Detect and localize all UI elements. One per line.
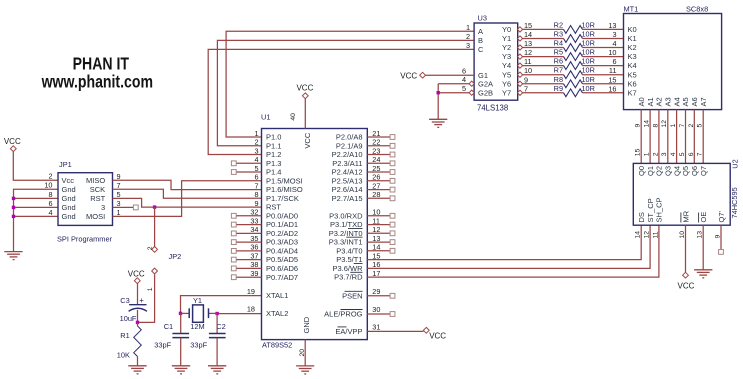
svg-text:9: 9: [254, 199, 258, 208]
svg-text:Q6: Q6: [690, 166, 699, 176]
svg-text:A4: A4: [672, 97, 681, 106]
resistor R9: [564, 89, 583, 97]
svg-text:P2.2/A10: P2.2/A10: [332, 150, 363, 159]
svg-text:P2.0/A8: P2.0/A8: [336, 133, 363, 142]
svg-text:Y3: Y3: [502, 52, 511, 61]
svg-text:P3.1/TXD: P3.1/TXD: [330, 220, 363, 229]
svg-text:2: 2: [652, 152, 659, 156]
svg-text:PSEN: PSEN: [342, 291, 362, 300]
svg-text:16: 16: [608, 84, 616, 93]
connector JP1: [58, 173, 113, 226]
svg-text:3: 3: [466, 41, 470, 50]
svg-text:4: 4: [462, 75, 466, 84]
svg-text:U3: U3: [478, 14, 487, 23]
svg-text:P0.7/AD7: P0.7/AD7: [266, 273, 298, 282]
ground (C2): [208, 365, 226, 367]
wire P1.2 to U3 C: [208, 49, 474, 154]
junction dot reset node: [136, 321, 139, 324]
power VCC (EA): [423, 327, 429, 333]
svg-text:P0.0/AD0: P0.0/AD0: [266, 211, 298, 220]
svg-text:www.phanit.com: www.phanit.com: [41, 73, 153, 92]
svg-text:DS: DS: [637, 212, 646, 222]
resistor R7: [564, 71, 583, 79]
svg-text:11: 11: [609, 66, 617, 75]
svg-text:K3: K3: [628, 52, 637, 61]
wire MT1 A3 to U2 Q3: [667, 110, 669, 164]
svg-text:Y1: Y1: [193, 296, 202, 305]
svg-text:P1.7/SCK: P1.7/SCK: [266, 194, 299, 203]
svg-text:10R: 10R: [582, 84, 595, 93]
wire R3 to MT1 K1: [583, 38, 624, 40]
wire MISO JP1-U1: [113, 180, 262, 189]
svg-text:Gnd: Gnd: [62, 185, 76, 194]
svg-text:A1: A1: [646, 97, 655, 106]
svg-text:Q0: Q0: [637, 166, 646, 176]
connector JP2 pin1: [152, 268, 158, 274]
wire R8 to MT1 K6: [583, 83, 624, 85]
junction dot G2B: [437, 91, 440, 94]
svg-text:VCC: VCC: [128, 269, 145, 278]
svg-text:C1: C1: [164, 322, 173, 331]
svg-text:2: 2: [466, 32, 470, 41]
svg-text:10: 10: [44, 181, 52, 190]
U1 AT89S52 box: [262, 129, 368, 340]
unconnected U2 Q7': [719, 250, 724, 255]
svg-text:P0.6/AD6: P0.6/AD6: [266, 264, 298, 273]
wire R4 to MT1 K2: [583, 47, 624, 49]
svg-text:SPI Programmer: SPI Programmer: [57, 235, 113, 244]
svg-text:P0.3/AD3: P0.3/AD3: [266, 238, 298, 247]
svg-text:10K: 10K: [117, 350, 130, 359]
svg-text:P3.5/T1: P3.5/T1: [336, 255, 362, 264]
resistor R4: [564, 44, 583, 52]
svg-text:C3: C3: [120, 296, 129, 305]
svg-text:7: 7: [254, 181, 258, 190]
svg-text:G2B: G2B: [478, 88, 493, 97]
svg-text:4: 4: [48, 208, 52, 217]
svg-text:15: 15: [524, 21, 532, 30]
svg-text:R3: R3: [554, 30, 563, 39]
wire R6 to MT1 K4: [583, 65, 624, 67]
svg-text:P3.3/INT1: P3.3/INT1: [329, 238, 363, 247]
svg-text:2: 2: [147, 246, 154, 250]
svg-text:74LS138: 74LS138: [477, 103, 508, 112]
wire R5 to MT1 K3: [583, 56, 624, 58]
svg-text:P3.7/RD: P3.7/RD: [334, 273, 363, 282]
svg-text:3: 3: [254, 146, 258, 155]
svg-text:P0.2/AD2: P0.2/AD2: [266, 229, 298, 238]
resistor R6: [564, 62, 583, 70]
wire Y5 to R7: [523, 74, 564, 76]
wire MT1 A1 to U2 Q1: [649, 110, 651, 164]
svg-text:33pF: 33pF: [154, 340, 171, 349]
svg-text:1: 1: [644, 152, 651, 156]
svg-text:Q7: Q7: [699, 166, 708, 176]
wire P3.5 to U2 DS: [367, 225, 641, 259]
junction dot crystal right: [215, 312, 218, 315]
svg-text:10R: 10R: [582, 20, 595, 29]
svg-text:U1: U1: [261, 112, 270, 121]
wire R7 to MT1 K5: [583, 74, 624, 76]
wire Y3 to R5: [523, 56, 564, 58]
svg-text:Y7: Y7: [502, 88, 511, 97]
resistor R5: [564, 53, 583, 61]
wire P1.1 to U3 B: [217, 40, 474, 145]
wire G2B: [438, 92, 469, 94]
svg-text:3: 3: [661, 152, 668, 156]
svg-text:VCC: VCC: [4, 137, 21, 146]
ground (U1 pin 20): [304, 340, 306, 366]
svg-text:XTAL1: XTAL1: [266, 291, 288, 300]
wire Y1 to R3: [523, 38, 564, 40]
wire Y2 to R4: [523, 47, 564, 49]
svg-text:P3.6/WR: P3.6/WR: [332, 264, 363, 273]
svg-text:R8: R8: [554, 75, 563, 84]
svg-text:19: 19: [247, 287, 255, 296]
svg-text:6: 6: [48, 199, 52, 208]
svg-text:VCC: VCC: [678, 281, 695, 290]
svg-text:7: 7: [524, 84, 528, 93]
svg-text:10: 10: [524, 66, 532, 75]
svg-text:A0: A0: [637, 97, 646, 106]
svg-text:K5: K5: [628, 70, 637, 79]
svg-text:Q5: Q5: [681, 166, 690, 176]
wire Y4 to R6: [523, 65, 564, 67]
svg-text:10R: 10R: [582, 30, 595, 39]
svg-text:5: 5: [697, 124, 704, 128]
svg-text:7: 7: [679, 124, 686, 128]
svg-text:P1.6/MISO: P1.6/MISO: [266, 185, 303, 194]
wire Y6 to R8: [523, 83, 564, 85]
wire crystal left: [181, 312, 190, 314]
wire MT1 A4 to U2 Q4: [676, 110, 678, 164]
svg-text:1: 1: [670, 124, 677, 128]
svg-text:P1.3: P1.3: [266, 159, 281, 168]
svg-text:3: 3: [612, 30, 616, 39]
svg-text:10R: 10R: [582, 66, 595, 75]
svg-text:P3.4/T0: P3.4/T0: [336, 246, 362, 255]
svg-text:K7: K7: [628, 88, 637, 97]
svg-text:P3.2/INT0: P3.2/INT0: [329, 229, 363, 238]
wire JP2 pin1 to reset node: [138, 274, 155, 322]
svg-text:15: 15: [608, 75, 616, 84]
svg-text:1: 1: [147, 287, 154, 291]
wire JP1 pin3 stub: [113, 206, 139, 208]
svg-text:A6: A6: [690, 97, 699, 106]
svg-text:P2.6/A14: P2.6/A14: [332, 185, 363, 194]
wire R2 to MT1 K0: [583, 28, 624, 30]
MT1 SC8x8 box: [624, 14, 722, 110]
svg-text:ALE/PROG: ALE/PROG: [324, 310, 363, 319]
wire crystal right: [209, 312, 218, 314]
svg-text:30: 30: [372, 305, 380, 314]
wire SCK JP1-U1: [113, 189, 262, 198]
wire VCC to G1: [426, 74, 475, 76]
unconnected JP1 pin3: [133, 205, 138, 210]
wire JP1 pin8: [14, 197, 59, 199]
wire RST to JP2: [154, 207, 156, 247]
svg-text:U2: U2: [730, 159, 739, 168]
wire P3.7 to U2 SH_CP: [367, 225, 659, 277]
wire C3 to node: [137, 310, 139, 323]
svg-text:P1.4: P1.4: [266, 168, 281, 177]
svg-text:SCK: SCK: [90, 185, 105, 194]
wire MT1 A2 to U2 Q2: [658, 110, 660, 164]
svg-text:A7: A7: [699, 97, 708, 106]
wire JP1 pin6: [14, 206, 59, 208]
junction dot RST: [153, 205, 156, 208]
svg-text:14: 14: [524, 30, 532, 39]
svg-text:B: B: [478, 36, 483, 45]
svg-text:P0.5/AD5: P0.5/AD5: [266, 255, 298, 264]
svg-text:9: 9: [635, 124, 642, 128]
svg-text:1: 1: [254, 129, 258, 138]
svg-text:C: C: [478, 45, 484, 54]
wire R1 to ground: [137, 357, 139, 366]
svg-text:P3.0/RXD: P3.0/RXD: [329, 211, 363, 220]
svg-text:2: 2: [48, 172, 52, 181]
svg-text:Gnd: Gnd: [62, 212, 76, 221]
svg-text:Y0: Y0: [502, 25, 511, 34]
svg-text:7: 7: [697, 152, 704, 156]
svg-text:A: A: [478, 27, 483, 36]
svg-text:K1: K1: [628, 34, 637, 43]
svg-text:K4: K4: [628, 61, 637, 70]
wire G2A: [438, 83, 469, 85]
wire EA to VCC: [367, 330, 423, 332]
svg-text:PHAN IT: PHAN IT: [73, 55, 130, 74]
svg-text:GND: GND: [302, 316, 311, 333]
wire VCC to JP1 pin2: [13, 152, 58, 181]
svg-text:Y2: Y2: [502, 43, 511, 52]
svg-text:Gnd: Gnd: [62, 194, 76, 203]
wire Y7 to R9: [523, 92, 564, 94]
svg-text:P2.7/A15: P2.7/A15: [332, 194, 363, 203]
wire MT1 A5 to U2 Q5: [685, 110, 687, 164]
svg-text:G2A: G2A: [478, 79, 493, 88]
svg-text:Q1: Q1: [646, 166, 655, 176]
svg-text:31: 31: [372, 322, 380, 331]
svg-text:P2.3/A11: P2.3/A11: [332, 159, 362, 168]
svg-text:P2.5/A13: P2.5/A13: [332, 176, 363, 185]
svg-text:OE: OE: [699, 212, 708, 223]
ground (R1): [128, 365, 146, 367]
svg-text:14: 14: [644, 120, 651, 128]
wire U2 MR to VCC: [685, 225, 687, 272]
svg-text:6: 6: [688, 152, 695, 156]
svg-text:74HC595: 74HC595: [730, 187, 739, 218]
svg-text:20: 20: [299, 349, 306, 357]
svg-text:EA/VPP: EA/VPP: [335, 327, 362, 336]
resistor R8: [564, 80, 583, 88]
svg-text:R4: R4: [554, 39, 563, 48]
svg-text:A2: A2: [655, 97, 664, 106]
svg-text:10: 10: [608, 48, 616, 57]
svg-text:MOSI: MOSI: [86, 212, 105, 221]
svg-text:R5: R5: [554, 48, 563, 57]
svg-text:R7: R7: [554, 66, 563, 75]
svg-text:RST: RST: [266, 203, 281, 212]
svg-text:XTAL2: XTAL2: [266, 309, 288, 318]
junction dot crystal left: [179, 312, 182, 315]
svg-text:10uF: 10uF: [120, 314, 137, 323]
svg-text:4: 4: [612, 39, 616, 48]
svg-text:12: 12: [661, 120, 668, 128]
svg-text:11: 11: [652, 231, 659, 238]
svg-text:Y4: Y4: [502, 61, 511, 70]
svg-text:VCC: VCC: [296, 84, 313, 93]
resistor R3: [564, 35, 583, 43]
svg-text:10R: 10R: [582, 57, 595, 66]
wire JP1 pin4: [14, 215, 59, 217]
wire XTAL2: [217, 313, 261, 315]
svg-text:13: 13: [524, 39, 532, 48]
svg-text:Y1: Y1: [502, 34, 511, 43]
wire JP1 gnd bus: [14, 189, 59, 251]
wire MOSI JP1-U1: [113, 181, 262, 217]
svg-text:9: 9: [524, 75, 528, 84]
svg-text:P1.1: P1.1: [266, 141, 281, 150]
svg-text:K6: K6: [628, 79, 637, 88]
svg-text:12M: 12M: [190, 322, 204, 331]
svg-text:5: 5: [462, 84, 466, 93]
svg-text:8: 8: [254, 190, 258, 199]
svg-text:8: 8: [48, 190, 52, 199]
svg-text:ST_CP: ST_CP: [646, 198, 655, 222]
svg-text:40: 40: [290, 113, 297, 121]
svg-text:SC8x8: SC8x8: [686, 4, 708, 13]
svg-text:2: 2: [688, 124, 695, 128]
svg-text:12: 12: [644, 231, 651, 239]
svg-text:VCC: VCC: [400, 71, 417, 80]
svg-text:P0.4/AD4: P0.4/AD4: [266, 247, 298, 256]
ground (C1): [172, 365, 190, 367]
svg-text:P1.5/MOSI: P1.5/MOSI: [266, 176, 303, 185]
svg-text:6: 6: [612, 57, 616, 66]
svg-text:Q3: Q3: [664, 166, 673, 176]
svg-text:10R: 10R: [582, 48, 595, 57]
wire Y0 to R2: [523, 28, 564, 30]
svg-text:P2.4/A12: P2.4/A12: [332, 168, 363, 177]
svg-text:K2: K2: [628, 43, 637, 52]
wire U2 OE to ground: [702, 225, 704, 270]
svg-text:R1: R1: [120, 331, 129, 340]
svg-text:Y5: Y5: [502, 70, 511, 79]
svg-text:+: +: [139, 296, 144, 305]
svg-text:8: 8: [652, 124, 659, 128]
wire R9 to MT1 K7: [583, 92, 624, 94]
svg-text:3: 3: [101, 203, 105, 212]
svg-text:33pF: 33pF: [190, 340, 207, 349]
svg-text:R6: R6: [554, 57, 563, 66]
svg-text:4: 4: [670, 152, 677, 156]
svg-text:15: 15: [635, 148, 642, 156]
junction dots gnd bus: [12, 197, 15, 200]
connector JP2 pin2: [152, 247, 158, 253]
wire MT1 A6 to U2 Q6: [693, 110, 695, 164]
ground (U3 G2): [429, 118, 447, 120]
svg-text:MT1: MT1: [624, 4, 639, 13]
svg-text:Q4: Q4: [672, 166, 681, 176]
svg-text:R2: R2: [554, 20, 563, 29]
svg-text:AT89S52: AT89S52: [262, 341, 292, 350]
wire MT1 A7 to U2 Q7: [702, 110, 704, 164]
resistor R2: [564, 26, 583, 34]
svg-text:10R: 10R: [582, 39, 595, 48]
wire U2 Q7' stub: [720, 225, 722, 249]
svg-text:Y6: Y6: [502, 79, 511, 88]
wire MT1 A0 to U2 Q0: [640, 110, 642, 164]
svg-text:SH_CP: SH_CP: [655, 197, 664, 222]
wire G2 bus to ground: [437, 84, 439, 120]
svg-text:10R: 10R: [582, 75, 595, 84]
svg-text:JP1: JP1: [59, 160, 72, 169]
svg-text:6: 6: [254, 173, 258, 182]
svg-text:29: 29: [372, 287, 380, 296]
svg-text:P1.0: P1.0: [266, 133, 281, 142]
wire P3.6 to U2 ST_CP: [367, 225, 650, 268]
svg-text:A5: A5: [681, 97, 690, 106]
svg-text:P0.1/AD1: P0.1/AD1: [266, 220, 298, 229]
svg-text:14: 14: [635, 231, 642, 239]
svg-text:11: 11: [524, 57, 532, 66]
svg-text:JP2: JP2: [169, 252, 182, 261]
svg-text:P1.2: P1.2: [266, 150, 281, 159]
svg-text:A3: A3: [664, 97, 673, 106]
U2 74HC595 box: [633, 163, 730, 225]
svg-text:RST: RST: [90, 194, 105, 203]
U3 74LS138 box: [474, 23, 518, 100]
svg-text:VCC: VCC: [429, 331, 446, 340]
svg-text:P2.1/A9: P2.1/A9: [336, 141, 363, 150]
svg-text:Gnd: Gnd: [62, 203, 76, 212]
ground (U2 OE): [694, 269, 712, 271]
svg-text:13: 13: [608, 21, 616, 30]
svg-text:18: 18: [247, 305, 255, 314]
svg-text:K0: K0: [628, 25, 637, 34]
ground (JP1): [4, 251, 22, 253]
svg-text:R9: R9: [554, 84, 563, 93]
wire XTAL1: [181, 296, 262, 314]
svg-text:Vcc: Vcc: [62, 176, 75, 185]
svg-text:5: 5: [679, 152, 686, 156]
svg-text:Q2: Q2: [655, 166, 664, 176]
wire RST JP1-U1: [113, 198, 262, 207]
svg-text:VCC: VCC: [303, 132, 312, 148]
wire VCC to C3: [137, 283, 139, 304]
wire P1.0 to U3 A: [226, 31, 474, 137]
svg-text:Q7': Q7': [717, 210, 726, 222]
svg-text:1: 1: [466, 23, 470, 32]
svg-text:MR: MR: [681, 210, 690, 222]
svg-text:12: 12: [524, 48, 532, 57]
svg-text:2: 2: [254, 138, 258, 147]
svg-text:MISO: MISO: [86, 176, 105, 185]
